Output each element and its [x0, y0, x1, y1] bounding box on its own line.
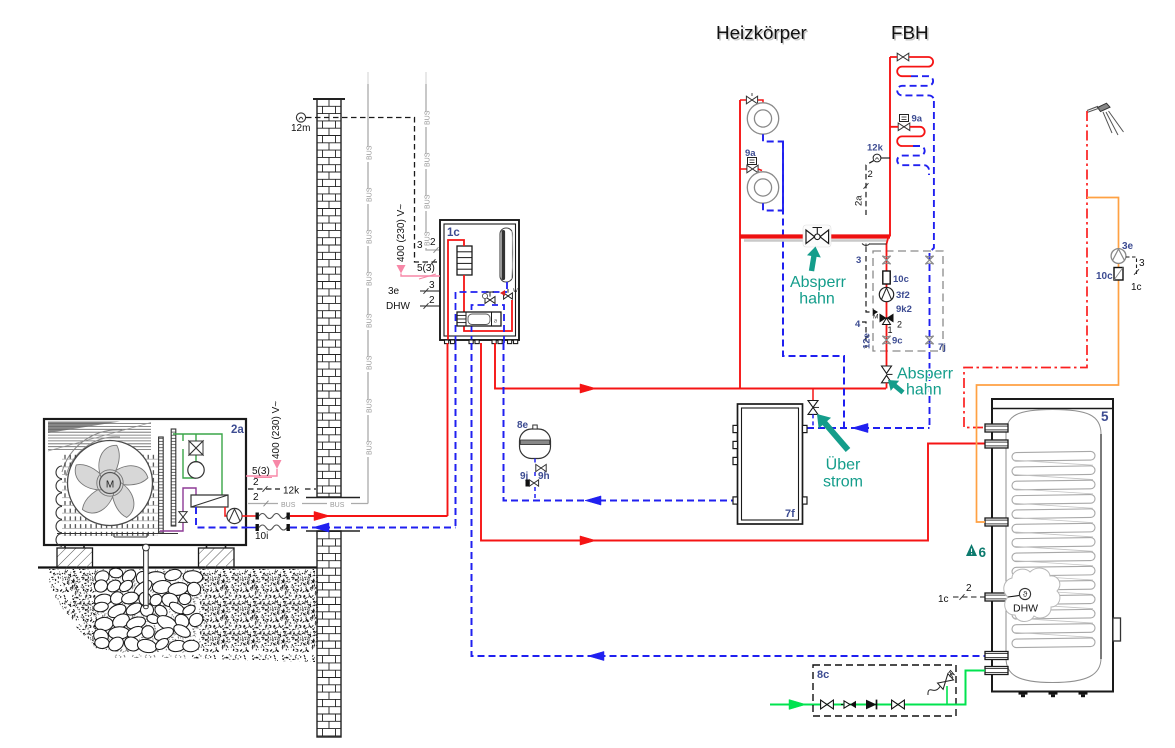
- warning symbol 6: [966, 544, 977, 556]
- mixer valve bottom right: [925, 336, 933, 344]
- tank flange right: [1113, 618, 1121, 641]
- wall sill at pipe passage: [306, 497, 360, 499]
- svg-text:BUS: BUS: [367, 313, 374, 328]
- mixer valve top left: [882, 256, 890, 264]
- svg-text:BUS: BUS: [367, 187, 374, 202]
- svg-text:ϑ: ϑ: [1023, 590, 1028, 599]
- heat pump outdoor unit 2a casing: [44, 419, 246, 545]
- flow sensor 3: [866, 244, 887, 252]
- louver panel top-left: [48, 422, 120, 434]
- unit feet: [57, 548, 93, 568]
- svg-text:BUS: BUS: [425, 110, 432, 125]
- svg-text:12k: 12k: [283, 486, 300, 497]
- svg-text:M: M: [106, 480, 114, 491]
- svg-text:BUS: BUS: [367, 355, 374, 370]
- radiator 1: [747, 103, 778, 134]
- condensate tray: [57, 534, 178, 538]
- tank feet: [1019, 692, 1028, 695]
- buffer stubs right: [803, 425, 808, 432]
- svg-text:3: 3: [429, 280, 435, 291]
- buffer tank 7f: [738, 404, 803, 524]
- check valve 10c circulation: [1114, 268, 1123, 281]
- refrigerant line green: [173, 434, 222, 496]
- flexible connector red 10i: [246, 515, 256, 517]
- teal arrow to Absperrhahn: [805, 245, 823, 272]
- radiator 2 return wire: [763, 203, 783, 210]
- svg-text:strom: strom: [823, 474, 863, 491]
- air intake arcs: [66, 437, 120, 476]
- electric heater: [457, 246, 472, 275]
- svg-text:Über: Über: [826, 456, 861, 474]
- circulation pump 3e: [1111, 249, 1126, 264]
- svg-text:1c: 1c: [938, 594, 949, 605]
- cold water inlet green: [770, 704, 820, 706]
- svg-text:Heizkörper: Heizkörper: [716, 22, 807, 43]
- svg-text:3e: 3e: [1122, 241, 1134, 252]
- gravel pit with stones: [96, 569, 200, 658]
- green stub relief: [946, 686, 948, 705]
- wire blue vessel drop: [534, 459, 536, 501]
- wire 2a dashed: [866, 161, 874, 216]
- svg-text:12m: 12m: [291, 123, 310, 134]
- svg-text:3: 3: [856, 255, 861, 266]
- radiator 2: [747, 172, 778, 203]
- 4-way valve: [189, 441, 203, 455]
- pipe red outdoor to indoor: [290, 515, 448, 517]
- plate heat exchanger: [191, 495, 228, 507]
- svg-text:2: 2: [897, 320, 902, 330]
- buffer stubs left: [733, 425, 738, 432]
- svg-text:3: 3: [1139, 258, 1145, 269]
- radiator 1 valve: [740, 99, 746, 101]
- heating coil: [1012, 451, 1095, 461]
- svg-text:12e: 12e: [862, 333, 873, 349]
- svg-text:BUS: BUS: [367, 271, 374, 286]
- svg-text:9a: 9a: [912, 114, 923, 125]
- shutoff valve 2: [892, 700, 898, 709]
- svg-text:9k2: 9k2: [896, 304, 912, 315]
- safety relief valve: [937, 674, 953, 690]
- valve 9h: [536, 464, 541, 471]
- safety group valve: [485, 297, 490, 304]
- svg-text:BUS: BUS: [281, 502, 296, 509]
- svg-text:1c: 1c: [1131, 282, 1142, 293]
- svg-text:3: 3: [417, 240, 423, 251]
- DHW sensor cloud: [1004, 568, 1060, 621]
- pipe blue indoor to outdoor: [290, 527, 456, 529]
- svg-text:hahn: hahn: [799, 291, 835, 308]
- heating supply line thick: [740, 234, 890, 238]
- pipe blue return from buffer tank: [504, 343, 734, 501]
- svg-text:5: 5: [1101, 409, 1109, 424]
- svg-text:10c: 10c: [893, 274, 909, 285]
- wire red below valve: [886, 383, 888, 389]
- svg-text:7j: 7j: [938, 342, 946, 353]
- floor loop 1 blue: [897, 76, 934, 101]
- pump in outdoor unit: [225, 507, 227, 516]
- soil stipple texture: [46, 569, 315, 662]
- flexible connector blue 10i: [246, 527, 256, 529]
- svg-text:8e: 8e: [517, 420, 529, 431]
- DHW tank 5 casing: [992, 399, 1113, 692]
- svg-text:9c: 9c: [892, 336, 903, 347]
- svg-text:BUS: BUS: [367, 145, 374, 160]
- svg-text:9h: 9h: [538, 471, 550, 482]
- flow meter 10c: [883, 271, 890, 284]
- outdoor sensor 12m: [296, 113, 305, 122]
- floor loop 2 blue: [897, 146, 929, 175]
- svg-text:ϑ: ϑ: [494, 319, 497, 325]
- svg-text:1: 1: [888, 325, 893, 335]
- svg-text:400 (230) V~: 400 (230) V~: [396, 204, 407, 262]
- svg-text:10i: 10i: [255, 531, 268, 542]
- svg-text:BUS: BUS: [367, 398, 374, 413]
- mixer feed red: [887, 237, 889, 367]
- BUS riser 1: [367, 72, 369, 84]
- check valve small: [844, 701, 850, 708]
- wire blue return loop: [456, 292, 508, 343]
- svg-text:3e: 3e: [388, 286, 400, 297]
- shut-off valve 2: [882, 366, 892, 373]
- svg-text:2: 2: [966, 583, 972, 594]
- FBH riser red: [889, 57, 891, 237]
- fan with motor M: [68, 441, 153, 526]
- floor loop 2 red: [890, 127, 925, 146]
- expansion vessel 8e: [520, 429, 551, 459]
- refrigerant line purple: [160, 488, 196, 531]
- svg-text:2: 2: [429, 295, 435, 306]
- radiator return drop: [783, 142, 844, 429]
- svg-text:BUS: BUS: [330, 502, 345, 509]
- pipe blue bottom return to DHW tank: [472, 343, 986, 656]
- condensate drain pipe: [144, 545, 149, 607]
- expansion valve: [179, 512, 187, 517]
- svg-text:8c: 8c: [817, 669, 829, 681]
- evaporator finned coil: [62, 452, 158, 536]
- shower spray lines: [1103, 111, 1124, 135]
- svg-text:BUS: BUS: [425, 152, 432, 167]
- evaporator vertical headers: [159, 437, 164, 533]
- wire red out: [242, 515, 246, 517]
- svg-text:2a: 2a: [231, 424, 244, 436]
- svg-text:2: 2: [868, 169, 873, 180]
- pipe blue x455 to outdoor: [455, 343, 457, 528]
- FBH return drop: [930, 101, 934, 428]
- relief drain squiggle: [928, 687, 940, 696]
- svg-text:Absperr: Absperr: [897, 366, 954, 383]
- radiator 1 return wire: [763, 134, 783, 210]
- svg-text:2: 2: [430, 237, 436, 248]
- teal arrow to valve 2: [884, 375, 907, 398]
- compressor: [188, 462, 204, 478]
- green line through group: [820, 704, 955, 706]
- brick wall upper segment: [317, 99, 341, 497]
- cold water group box 8c: [813, 665, 956, 716]
- svg-text:W: W: [513, 288, 518, 294]
- overflow valve Ueberstrom: [808, 401, 818, 408]
- mixing group box 7j: [873, 251, 943, 351]
- circulation pipe orange: [977, 198, 1119, 523]
- svg-text:2: 2: [253, 477, 259, 488]
- expansion vessel indoor: [500, 228, 513, 282]
- pipe red to DHW tank coil: [481, 343, 985, 541]
- drain valve 9j: [529, 480, 534, 486]
- wire red heater top: [448, 240, 464, 343]
- wire blue out: [196, 507, 246, 528]
- wire 3 1c bracket: [1126, 257, 1137, 276]
- wire blue vessel: [506, 282, 508, 292]
- sensor wire 12m dashed: [306, 118, 440, 263]
- floor loop 1 red: [890, 57, 933, 76]
- valve 9c: [882, 336, 890, 344]
- svg-text:2: 2: [253, 492, 259, 503]
- indoor unit 1c casing: [440, 220, 519, 340]
- heating return line: [807, 427, 930, 429]
- overflow valve blue stub: [812, 414, 814, 428]
- diverter valve DHW: [504, 293, 508, 299]
- wire red heater bottom: [464, 275, 512, 331]
- casing bottom stubs: [445, 340, 449, 344]
- shower head: [1098, 103, 1111, 111]
- FBH shutoff valve: [897, 53, 903, 61]
- svg-text:5(3): 5(3): [252, 466, 270, 477]
- shutoff valve 1: [821, 700, 827, 709]
- svg-text:12k: 12k: [867, 143, 884, 154]
- svg-text:DHW: DHW: [1013, 603, 1038, 615]
- svg-text:BUS: BUS: [367, 440, 374, 455]
- tank stubs: [985, 424, 1008, 432]
- pipe red heating flow: [495, 343, 886, 389]
- overflow valve red stub: [812, 389, 814, 401]
- svg-text:1c: 1c: [447, 227, 460, 239]
- green to tank: [955, 671, 985, 705]
- teal arrow to overflow valve: [811, 409, 854, 456]
- warm water pipe dash-dot: [964, 111, 1087, 428]
- svg-text:DHW: DHW: [386, 301, 410, 312]
- shadow of supply line: [744, 239, 888, 242]
- svg-text:6: 6: [979, 545, 987, 560]
- shut-off valve Absperrhahn: [803, 225, 831, 247]
- svg-text:10c: 10c: [1096, 271, 1113, 282]
- svg-text:400 (230) V~: 400 (230) V~: [271, 401, 282, 459]
- inner vessel: [1006, 410, 1101, 683]
- svg-text:M: M: [873, 314, 878, 321]
- pump assembly: [457, 312, 501, 326]
- svg-text:2a: 2a: [854, 195, 865, 206]
- svg-text:FBH: FBH: [891, 22, 929, 43]
- svg-text:BUS: BUS: [367, 229, 374, 244]
- check valve black: [866, 700, 877, 710]
- pump 3f2: [879, 287, 893, 301]
- svg-text:4: 4: [855, 319, 861, 330]
- ground surface line: [38, 566, 317, 568]
- svg-text:5(3): 5(3): [417, 263, 435, 274]
- radiator riser red: [739, 100, 741, 389]
- brick wall lower segment: [317, 531, 341, 737]
- svg-text:Absperr: Absperr: [790, 274, 847, 291]
- svg-text:BUS: BUS: [425, 194, 432, 209]
- svg-text:7f: 7f: [785, 508, 795, 520]
- svg-text:3f2: 3f2: [896, 290, 910, 301]
- mixer valve top right: [925, 256, 933, 264]
- BUS riser 2: [425, 72, 427, 84]
- svg-text:hahn: hahn: [906, 382, 942, 399]
